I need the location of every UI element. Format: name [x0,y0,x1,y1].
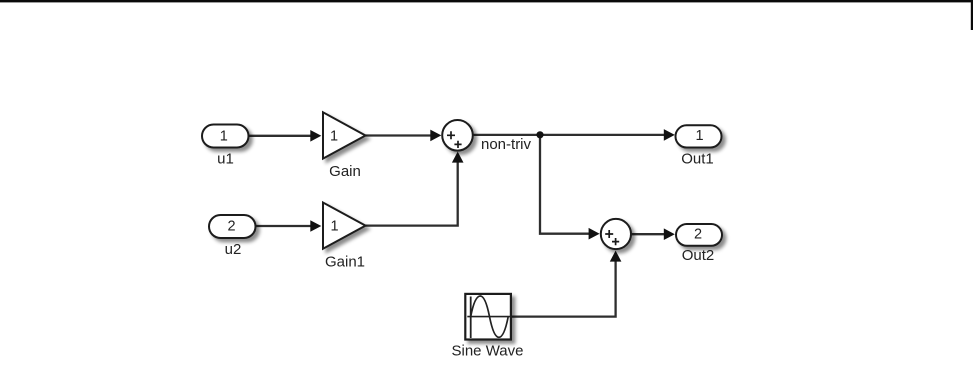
svg-text:Out1: Out1 [681,151,714,168]
svg-text:2: 2 [227,218,235,234]
svg-text:Sine Wave: Sine Wave [452,343,524,360]
svg-text:1: 1 [220,129,228,145]
svg-text:u2: u2 [225,241,242,258]
svg-text:Gain1: Gain1 [325,253,365,270]
svg-text:1: 1 [695,128,703,144]
svg-text:Out2: Out2 [682,247,715,264]
svg-text:non-triv: non-triv [481,136,532,153]
svg-text:1: 1 [330,128,338,144]
svg-text:2: 2 [694,227,702,243]
svg-text:Gain: Gain [329,163,361,180]
svg-text:1: 1 [330,219,338,235]
svg-text:u1: u1 [217,150,234,167]
